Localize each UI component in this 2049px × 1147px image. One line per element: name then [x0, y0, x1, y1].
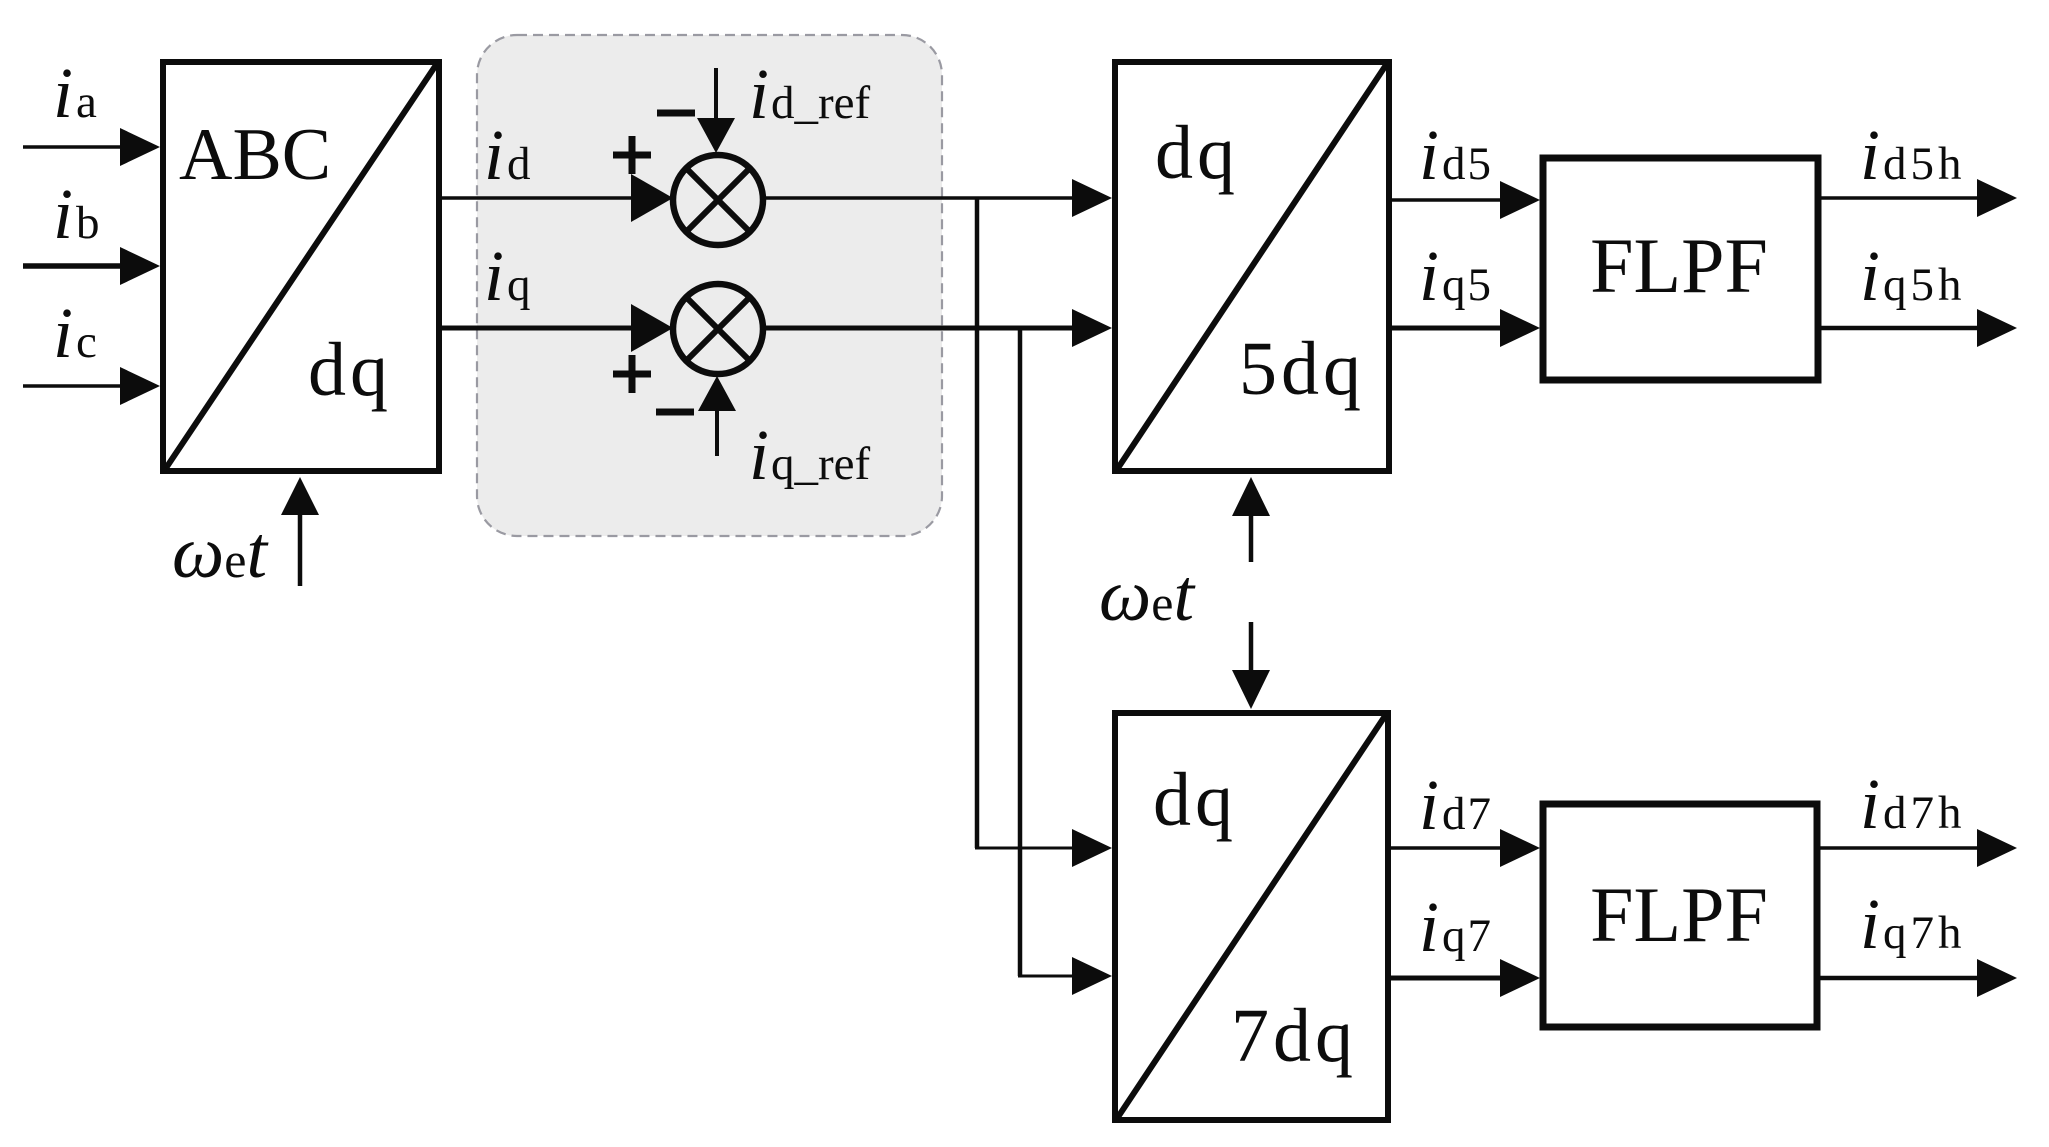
wire iq5h out [1821, 309, 2017, 347]
wire iq: ABC to adder2 [442, 304, 673, 352]
wire wet between 5dq and 7dq: down arrow [1232, 622, 1270, 709]
svg-text:ABC: ABC [179, 114, 331, 196]
wire id5h out [1821, 179, 2017, 217]
wire ia [23, 128, 160, 166]
wire iq_ref into S2 [698, 376, 736, 456]
svg-text:ωet: ωet [172, 512, 269, 594]
plus sign S2 [613, 355, 651, 393]
minus sign S1 [657, 110, 695, 117]
wire wet between 5dq and 7dq: up arrow [1232, 477, 1270, 562]
plus sign S1 [613, 136, 651, 174]
wire iq5: 5dq to FLPF1 [1392, 309, 1540, 347]
wire id error to 5dq [766, 179, 1112, 217]
svg-text:7dq: 7dq [1231, 994, 1357, 1078]
wire iq7: 7dq to FLPF2 [1391, 959, 1540, 997]
wire branch id down to 7dq [975, 198, 1112, 867]
block dq/5dq [1115, 62, 1389, 471]
summing junction S1 (id) [673, 155, 763, 245]
svg-text:dq: dq [1153, 758, 1237, 842]
wire ib [23, 247, 160, 285]
wire id5: 5dq to FLPF1 [1392, 181, 1540, 219]
wire id7: 7dq to FLPF2 [1391, 829, 1540, 867]
wire id7h out [1817, 829, 2017, 867]
wire iq error to 5dq [766, 309, 1112, 347]
block dq/7dq [1115, 713, 1388, 1120]
block FLPF lower [1543, 804, 1817, 1027]
svg-text:ωet: ωet [1099, 555, 1196, 637]
wire id_ref into S1 [697, 68, 735, 153]
minus sign S2 [656, 409, 694, 416]
diagonal of dq/7dq block [1118, 716, 1385, 1117]
block FLPF upper [1543, 158, 1818, 380]
svg-text:5dq: 5dq [1239, 327, 1365, 411]
wire wet into ABC bottom [281, 477, 319, 586]
svg-text:dq: dq [308, 328, 392, 412]
wire iq7h out [1817, 959, 2017, 997]
svg-text:FLPF: FLPF [1590, 871, 1768, 958]
svg-text:FLPF: FLPF [1590, 222, 1768, 309]
summing junction S2 (iq) [673, 284, 763, 374]
wire id: ABC to adder1 [442, 174, 673, 222]
wire ic [23, 367, 160, 405]
diagonal of ABC/dq block [166, 65, 436, 468]
block ABC/dq [163, 62, 439, 471]
wire branch iq down to 7dq [1018, 328, 1112, 995]
diagonal of dq/5dq block [1118, 65, 1386, 468]
svg-text:dq: dq [1155, 111, 1239, 195]
shaded dashed region (error subtraction zone) [477, 35, 942, 536]
